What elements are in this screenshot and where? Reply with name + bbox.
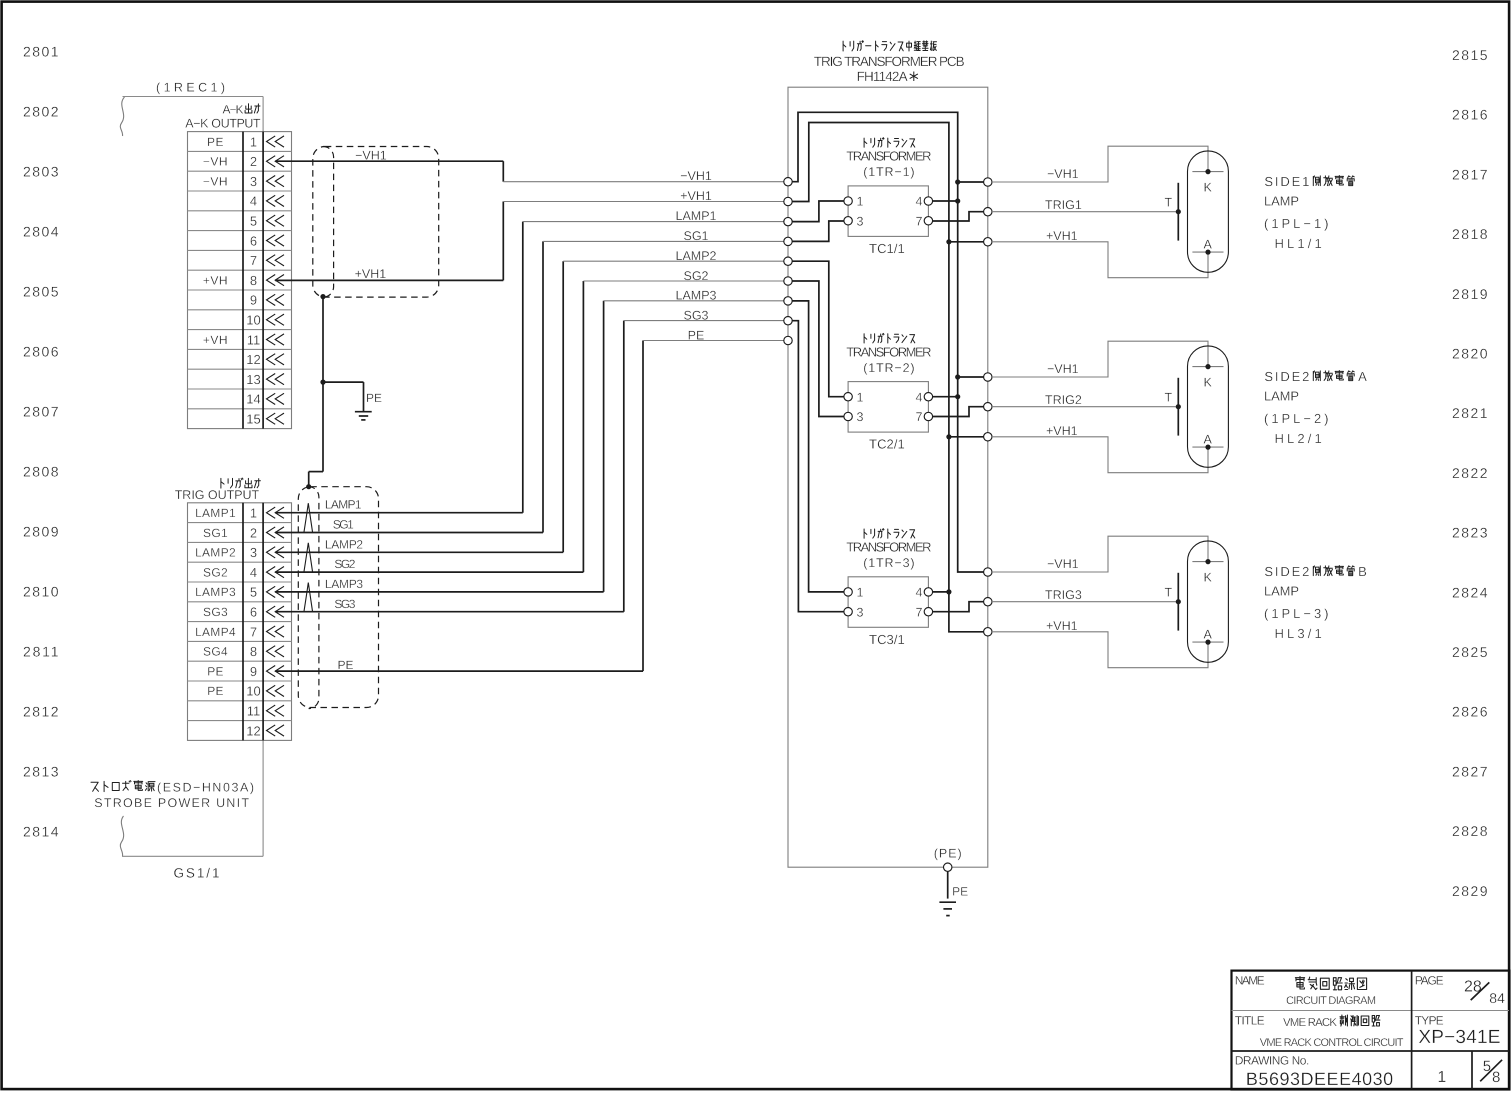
lamp 3 cathode K	[1192, 561, 1223, 563]
transformer 1TR-1	[848, 186, 928, 237]
svg-text:6: 6	[250, 233, 257, 248]
svg-text:LAMP3: LAMP3	[325, 577, 364, 591]
svg-text:13: 13	[246, 372, 260, 387]
svg-text:2: 2	[250, 525, 257, 540]
svg-text:DRAWING No.: DRAWING No.	[1235, 1054, 1310, 1068]
lamp 3 anode A	[1192, 641, 1223, 643]
1TR-1 pin 3	[844, 217, 852, 225]
svg-text:HL1/1: HL1/1	[1275, 236, 1322, 251]
wire 1TR-3 pin4 to rail	[933, 591, 949, 593]
svg-text:A−K OUTPUT: A−K OUTPUT	[185, 117, 261, 131]
PE ground at PCB bottom	[947, 871, 949, 898]
svg-text:SG3: SG3	[334, 597, 355, 611]
svg-text:PE: PE	[207, 135, 224, 149]
1TR-2 pin 3	[844, 412, 852, 420]
svg-text:A: A	[1204, 238, 1213, 252]
svg-text:2806: 2806	[23, 344, 59, 360]
wire 1TR-2 pin7 to TRIG2	[933, 407, 984, 417]
PCB left edge pin PE	[784, 336, 792, 344]
svg-text:LAMP2: LAMP2	[195, 546, 236, 560]
asterisk	[910, 72, 918, 82]
wire -VH from A-K pin2	[275, 160, 503, 162]
svg-text:(1TR−3): (1TR−3)	[863, 556, 914, 570]
wire 1TR-1 pin7 to TRIG1	[933, 212, 984, 221]
svg-text:PAGE: PAGE	[1415, 974, 1444, 988]
wire LAMP2 to 1TR-2 pin1	[792, 261, 844, 397]
wire SG3	[275, 611, 624, 613]
svg-text:2825: 2825	[1452, 644, 1488, 660]
PCB right edge pin +VH1 lamp3	[984, 628, 992, 636]
svg-text:SG3: SG3	[683, 309, 708, 323]
wire LAMP1 to 1TR-1 pin1	[792, 201, 844, 222]
svg-text:4: 4	[250, 565, 257, 580]
wire LAMP3	[275, 591, 603, 593]
svg-text:TRANSFORMER: TRANSFORMER	[846, 540, 931, 555]
svg-text:1: 1	[857, 195, 864, 209]
transformer 1TR-2 labels	[864, 334, 867, 343]
svg-text:T: T	[1165, 391, 1173, 405]
ground PE (shield)	[355, 411, 372, 413]
svg-text:+VH1: +VH1	[355, 267, 387, 281]
svg-text:2819: 2819	[1452, 286, 1488, 302]
svg-text:7: 7	[916, 605, 923, 619]
svg-text:4: 4	[916, 195, 923, 209]
svg-text:PE: PE	[688, 328, 705, 342]
svg-text:SG2: SG2	[203, 565, 228, 579]
svg-text:A: A	[1358, 369, 1367, 384]
svg-text:8: 8	[250, 273, 257, 288]
branch +VH1 to lamp2 A	[946, 434, 951, 439]
svg-text:1: 1	[857, 586, 864, 600]
svg-text:(PE): (PE)	[934, 847, 962, 861]
strobe power unit boundary bracket (1REC1)	[120, 97, 124, 136]
1TR-1 pin 1	[844, 197, 852, 205]
1TR-1 pin 7	[924, 217, 932, 225]
lamp HL1/1 (1PL-1) envelope	[1188, 151, 1229, 272]
svg-text:NAME: NAME	[1235, 974, 1265, 988]
svg-text:(1TR−2): (1TR−2)	[863, 361, 914, 375]
svg-text:K: K	[1204, 376, 1213, 390]
svg-text:LAMP: LAMP	[1264, 583, 1299, 598]
svg-text:TRIG TRANSFORMER PCB: TRIG TRANSFORMER PCB	[814, 54, 965, 69]
svg-text:2821: 2821	[1452, 405, 1488, 421]
unit boundary bottom bracket GS1/1	[120, 816, 123, 856]
svg-text:VME RACK: VME RACK	[1283, 1017, 1337, 1029]
svg-text:TRANSFORMER: TRANSFORMER	[846, 149, 931, 164]
svg-text:LAMP3: LAMP3	[676, 289, 717, 303]
svg-text:5: 5	[250, 214, 257, 229]
svg-text:LAMP1: LAMP1	[676, 209, 717, 223]
PCB right edge pin +VH1 lamp1	[984, 238, 992, 246]
svg-text:2802: 2802	[23, 104, 59, 120]
svg-text:12: 12	[246, 352, 260, 367]
-VH1 rail inside PCB	[792, 112, 983, 572]
svg-text:(1PL−3): (1PL−3)	[1264, 606, 1329, 621]
PCB left edge pin LAMP2	[784, 257, 792, 265]
svg-text:TITLE: TITLE	[1235, 1013, 1265, 1027]
svg-text:SIDE1: SIDE1	[1264, 174, 1309, 189]
svg-text:B5693DEEE4030: B5693DEEE4030	[1246, 1069, 1393, 1089]
PCB right edge pin -VH1 lamp2	[984, 373, 992, 381]
svg-text:B: B	[1358, 564, 1367, 579]
svg-text:GS1/1: GS1/1	[174, 866, 220, 881]
svg-text:1: 1	[250, 134, 257, 149]
svg-text:8: 8	[1492, 1069, 1500, 1086]
svg-text:7: 7	[250, 624, 257, 639]
svg-text:10: 10	[246, 684, 260, 699]
svg-text:−VH: −VH	[203, 155, 228, 169]
1TR-2 pin 1	[844, 393, 852, 401]
svg-text:HL2/1: HL2/1	[1275, 431, 1322, 446]
branch -VH1 to lamp2 K	[955, 374, 960, 379]
svg-text:PE: PE	[207, 684, 224, 698]
svg-text:−VH1: −VH1	[1047, 167, 1079, 181]
wire 1TR-3 pin7 to TRIG3	[933, 602, 984, 612]
svg-text:SG1: SG1	[333, 517, 354, 531]
svg-text:4: 4	[916, 390, 923, 404]
lamp 1 trigger T	[1177, 183, 1179, 241]
wire LAMP3 to 1TR-3 pin1	[792, 301, 844, 592]
svg-text:4: 4	[250, 194, 257, 209]
svg-text:TRIG3: TRIG3	[1045, 588, 1082, 602]
twisted pair symbol 3	[304, 583, 313, 612]
svg-text:2: 2	[250, 154, 257, 169]
svg-text:TRIG2: TRIG2	[1045, 393, 1082, 407]
lamp 3 trigger T	[1177, 573, 1179, 631]
transformer 1TR-2	[848, 382, 928, 433]
svg-text:SG3: SG3	[203, 605, 228, 619]
wire -VH1 to PCB	[503, 181, 783, 183]
TRIG TRANSFORMER PCB board FH1142A	[788, 87, 988, 867]
wire SG2 to 1TR-2 pin3	[792, 281, 844, 417]
svg-text:TRANSFORMER: TRANSFORMER	[846, 344, 931, 359]
svg-text:2818: 2818	[1452, 226, 1488, 242]
svg-text:LAMP: LAMP	[1264, 193, 1299, 208]
title block	[1232, 971, 1510, 1090]
PCB left edge pin +VH1	[784, 197, 792, 205]
wire LAMP1	[275, 512, 523, 514]
svg-text:(ESD−HN03A): (ESD−HN03A)	[157, 781, 254, 795]
svg-text:12: 12	[246, 723, 260, 738]
+VH1 rail inside PCB	[792, 123, 983, 632]
svg-text:2814: 2814	[23, 824, 59, 840]
svg-text:+VH1: +VH1	[1046, 424, 1078, 438]
lamp 2 cathode K	[1192, 366, 1223, 368]
svg-text:3: 3	[857, 605, 864, 619]
svg-text:7: 7	[916, 214, 923, 228]
connector 1REC1 A-K OUTPUT table	[188, 132, 292, 429]
svg-text:2810: 2810	[23, 584, 59, 600]
svg-text:−VH1: −VH1	[1047, 557, 1079, 571]
wire LAMP2	[275, 551, 563, 553]
svg-text:2805: 2805	[23, 284, 59, 300]
svg-text:K: K	[1204, 571, 1213, 585]
svg-text:T: T	[1165, 196, 1173, 210]
twisted pair symbol 2	[304, 543, 313, 572]
svg-text:CIRCUIT DIAGRAM: CIRCUIT DIAGRAM	[1286, 995, 1376, 1007]
svg-text:TRIG1: TRIG1	[1045, 198, 1082, 212]
svg-text:TC2/1: TC2/1	[869, 437, 905, 452]
shield PE junction	[320, 380, 325, 385]
svg-text:TRIG OUTPUT: TRIG OUTPUT	[175, 488, 260, 502]
strobe power unit label	[91, 782, 99, 791]
svg-text:A: A	[1204, 628, 1213, 642]
svg-text:2813: 2813	[23, 764, 59, 780]
svg-text:2808: 2808	[23, 464, 59, 480]
svg-text:+VH1: +VH1	[1046, 229, 1078, 243]
transformer 1TR-3 labels	[864, 529, 867, 538]
svg-text:XP−341E: XP−341E	[1418, 1027, 1500, 1048]
PCB right edge pin -VH1 lamp1	[984, 178, 992, 186]
PCB right edge pin TRIG2	[984, 403, 992, 411]
svg-text:(1PL−1): (1PL−1)	[1264, 216, 1329, 231]
wire SG3 to 1TR-3 pin3	[792, 321, 844, 612]
wire +VH1 to PCB	[503, 201, 783, 203]
svg-text:2801: 2801	[23, 44, 59, 60]
lamp 2 anode A	[1192, 446, 1223, 448]
svg-text:6: 6	[250, 605, 257, 620]
svg-text:15: 15	[246, 412, 260, 427]
PCB bottom PE pin	[944, 863, 952, 871]
svg-text:3: 3	[250, 174, 257, 189]
svg-text:VME RACK CONTROL CIRCUIT: VME RACK CONTROL CIRCUIT	[1260, 1037, 1404, 1049]
svg-text:PE: PE	[207, 664, 224, 678]
1TR-2 pin 4	[924, 393, 932, 401]
svg-text:14: 14	[246, 392, 260, 407]
svg-text:3: 3	[250, 545, 257, 560]
lamp HL2/1 (1PL-2) envelope	[1188, 346, 1229, 467]
svg-text:84: 84	[1489, 990, 1505, 1006]
svg-text:2828: 2828	[1452, 823, 1488, 839]
svg-text:2809: 2809	[23, 524, 59, 540]
lamp 2 trigger T	[1177, 378, 1179, 436]
svg-text:K: K	[1204, 181, 1213, 195]
svg-text:2816: 2816	[1452, 107, 1488, 123]
PCB left edge pin SG1	[784, 237, 792, 245]
lamp HL2/1 wiring	[992, 341, 1208, 377]
1TR-2 pin 7	[924, 412, 932, 420]
svg-text:FH1142A: FH1142A	[857, 69, 908, 84]
svg-text:1: 1	[857, 390, 864, 404]
svg-text:2822: 2822	[1452, 465, 1488, 481]
svg-text:T: T	[1165, 586, 1173, 600]
svg-text:+VH1: +VH1	[680, 189, 712, 203]
svg-text:9: 9	[250, 293, 257, 308]
svg-text:A: A	[1204, 433, 1213, 447]
svg-text:11: 11	[247, 704, 261, 719]
PCB right edge pin TRIG3	[984, 598, 992, 606]
svg-text:+VH1: +VH1	[1046, 619, 1078, 633]
svg-text:PE: PE	[366, 391, 382, 405]
svg-text:LAMP2: LAMP2	[325, 538, 364, 552]
transformer 1TR-1 labels	[864, 138, 867, 147]
PCB right edge pin -VH1 lamp3	[984, 568, 992, 576]
svg-text:(1PL−2): (1PL−2)	[1264, 411, 1329, 426]
branch -VH1 to lamp1 K	[955, 179, 960, 184]
PCB left edge pin LAMP3	[784, 297, 792, 305]
svg-text:SG1: SG1	[683, 229, 708, 243]
1TR-3 pin 1	[844, 588, 852, 596]
svg-text:STROBE POWER UNIT: STROBE POWER UNIT	[94, 796, 249, 810]
wire SG1	[275, 532, 543, 534]
svg-text:2811: 2811	[23, 644, 59, 660]
PCB title (japanese)	[843, 41, 846, 51]
1TR-3 pin 7	[924, 608, 932, 616]
svg-text:2803: 2803	[23, 164, 59, 180]
svg-text:2824: 2824	[1452, 584, 1488, 600]
svg-text:PE: PE	[952, 885, 968, 899]
lamp HL1/1 wiring	[992, 146, 1208, 182]
connector TRIG OUTPUT table	[188, 503, 292, 741]
svg-text:LAMP4: LAMP4	[195, 625, 236, 639]
svg-text:4: 4	[916, 586, 923, 600]
trig cable bundle (dashed)	[298, 487, 378, 708]
svg-text:2827: 2827	[1452, 763, 1488, 779]
cable shield drain wire	[320, 294, 325, 299]
wire 1TR-1 pin4 to -VH1 rail	[933, 200, 958, 202]
svg-text:3: 3	[857, 214, 864, 228]
svg-text:7: 7	[916, 410, 923, 424]
PCB left edge pin SG2	[784, 277, 792, 285]
svg-text:2807: 2807	[23, 404, 59, 420]
svg-text:2829: 2829	[1452, 883, 1488, 899]
PCB left edge pin -VH1	[784, 178, 792, 186]
svg-text:1: 1	[250, 506, 257, 521]
transformer 1TR-3	[848, 577, 928, 628]
svg-text:(1REC1): (1REC1)	[156, 81, 225, 95]
TRIG output header	[221, 478, 224, 488]
svg-text:LAMP1: LAMP1	[195, 506, 236, 520]
branch +VH1 to lamp1 A	[946, 239, 951, 244]
svg-text:LAMP: LAMP	[1264, 388, 1299, 403]
svg-text:7: 7	[250, 253, 257, 268]
svg-text:LAMP3: LAMP3	[195, 585, 236, 599]
svg-text:2823: 2823	[1452, 525, 1488, 541]
PCB left edge pin LAMP1	[784, 217, 792, 225]
1TR-3 pin 4	[924, 588, 932, 596]
svg-text:LAMP1: LAMP1	[325, 498, 362, 512]
1TR-3 pin 3	[844, 608, 852, 616]
svg-text:2804: 2804	[23, 224, 59, 240]
svg-text:TC3/1: TC3/1	[869, 632, 905, 647]
svg-text:+VH: +VH	[203, 333, 228, 347]
PCB left edge pin SG3	[784, 317, 792, 325]
svg-text:5: 5	[250, 585, 257, 600]
wire SG1 to 1TR-1 pin3	[792, 221, 844, 241]
svg-text:HL3/1: HL3/1	[1275, 626, 1322, 641]
lamp 1 anode A	[1192, 251, 1223, 253]
svg-text:8: 8	[250, 644, 257, 659]
svg-text:2817: 2817	[1452, 166, 1488, 182]
svg-text:1: 1	[1437, 1069, 1446, 1086]
svg-text:−VH1: −VH1	[680, 169, 712, 183]
wire PE	[275, 670, 643, 672]
lamp HL3/1 (1PL-3) envelope	[1188, 541, 1229, 662]
svg-text:A−K: A−K	[223, 103, 244, 117]
PCB right edge pin +VH1 lamp2	[984, 433, 992, 441]
svg-text:−VH: −VH	[203, 174, 228, 188]
svg-text:SG2: SG2	[683, 269, 708, 283]
lamp HL3/1 wiring	[992, 536, 1208, 572]
svg-text:10: 10	[246, 313, 260, 328]
svg-text:SG2: SG2	[334, 557, 355, 571]
svg-text:2820: 2820	[1452, 346, 1488, 362]
svg-text:PE: PE	[338, 658, 354, 672]
twisted pair symbol 1	[304, 503, 313, 532]
svg-text:LAMP2: LAMP2	[676, 249, 717, 263]
svg-text:SIDE2: SIDE2	[1264, 564, 1309, 579]
svg-text:11: 11	[247, 332, 261, 347]
svg-text:2826: 2826	[1452, 704, 1488, 720]
svg-text:+VH: +VH	[203, 273, 228, 287]
lamp 1 cathode K	[1192, 171, 1223, 173]
svg-text:9: 9	[250, 664, 257, 679]
wire +VH from A-K pin8	[275, 279, 503, 281]
wire SG2	[275, 571, 583, 573]
svg-text:(1TR−1): (1TR−1)	[863, 165, 914, 179]
PCB right edge pin TRIG1	[984, 208, 992, 216]
svg-text:−VH1: −VH1	[1047, 362, 1079, 376]
1TR-1 pin 4	[924, 197, 932, 205]
svg-text:SG1: SG1	[203, 526, 228, 540]
svg-text:TYPE: TYPE	[1415, 1013, 1444, 1027]
svg-text:2812: 2812	[23, 704, 59, 720]
svg-text:SG4: SG4	[203, 645, 228, 659]
svg-text:TC1/1: TC1/1	[869, 241, 905, 256]
svg-text:SIDE2: SIDE2	[1264, 369, 1309, 384]
svg-text:2815: 2815	[1452, 47, 1488, 63]
wire 1TR-2 pin4 to -VH1 rail	[933, 396, 958, 398]
shielded cable for VH wires (dashed)	[313, 147, 439, 298]
svg-text:3: 3	[857, 410, 864, 424]
